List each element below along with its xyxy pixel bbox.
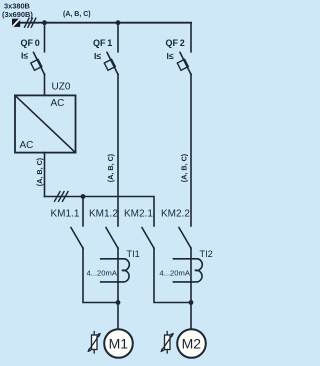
svg-text:KM2.1: KM2.1 bbox=[124, 209, 153, 220]
node: junction above M1 bbox=[116, 300, 121, 305]
label KM1.2 bbox=[89, 209, 118, 220]
thermistor sensor M1 bbox=[88, 332, 101, 354]
wire KM1.2 to motor M1 bbox=[117, 248, 119, 329]
svg-text:UZ0: UZ0 bbox=[52, 82, 71, 93]
label QF0 bbox=[21, 38, 40, 48]
svg-text:QF 2: QF 2 bbox=[166, 38, 185, 48]
label KM2.1 bbox=[124, 209, 153, 220]
label M1 bbox=[109, 336, 129, 352]
svg-text:4...20mA: 4...20mA bbox=[160, 269, 191, 278]
svg-text:KM1.1: KM1.1 bbox=[51, 209, 80, 220]
label 4...20mA TI1 bbox=[87, 269, 118, 278]
wire KM1.1 to junction bbox=[83, 248, 118, 303]
label AC input bbox=[51, 98, 65, 109]
current transducer TI2 bbox=[173, 259, 202, 282]
node: bus junction to QF0 bbox=[42, 20, 47, 25]
svg-text:M2: M2 bbox=[182, 336, 202, 352]
breaker QF2 bbox=[177, 23, 191, 75]
three-phase slashes on top bus bbox=[25, 18, 36, 27]
label AC output bbox=[20, 140, 34, 151]
svg-text:(A, B, C): (A, B, C) bbox=[106, 153, 115, 182]
wire QF2 column bbox=[190, 74, 192, 226]
wire KM2.1 to junction bbox=[154, 248, 191, 303]
motor M1 bbox=[104, 329, 133, 358]
label I<= QF0 bbox=[21, 51, 28, 61]
node: distribution junction to KM1.1 bbox=[81, 194, 86, 199]
label QF1 bbox=[93, 38, 112, 48]
svg-text:(A, B, C): (A, B, C) bbox=[35, 157, 44, 186]
svg-text:I≤: I≤ bbox=[94, 51, 101, 61]
svg-text:(A, B, C): (A, B, C) bbox=[63, 11, 91, 18]
svg-text:QF 1: QF 1 bbox=[93, 38, 112, 48]
contactor KM1.1 bbox=[71, 228, 83, 249]
contactor KM2.2 bbox=[179, 228, 191, 249]
svg-text:AC: AC bbox=[51, 98, 65, 109]
svg-text:QF 0: QF 0 bbox=[21, 38, 40, 48]
wire UZ0 output bbox=[44, 153, 46, 197]
breaker QF1 bbox=[104, 23, 118, 75]
wire KM1.1 drop bbox=[82, 197, 84, 226]
svg-text:TI2: TI2 bbox=[200, 249, 213, 259]
top bus wire (A,B,C) bbox=[20, 22, 191, 24]
label 4...20mA TI2 bbox=[160, 269, 191, 278]
contactor KM2.1 bbox=[142, 228, 154, 249]
wire KM2.2 to motor M2 bbox=[190, 248, 192, 329]
node: bus junction to QF1 bbox=[116, 20, 121, 25]
label TI2 bbox=[200, 249, 213, 259]
svg-text:I≤: I≤ bbox=[167, 51, 174, 61]
three-phase slashes on distribution line bbox=[55, 192, 69, 202]
current transducer TI1 bbox=[101, 259, 130, 282]
label KM1.1 bbox=[51, 209, 80, 220]
label TI1 bbox=[127, 249, 140, 259]
node: junction above M2 bbox=[189, 300, 194, 305]
label (3x690V) bbox=[2, 10, 33, 19]
thermistor sensor M2 bbox=[161, 332, 174, 354]
breaker QF0 bbox=[31, 23, 45, 96]
svg-text:I≤: I≤ bbox=[21, 51, 28, 61]
svg-text:M1: M1 bbox=[109, 336, 129, 352]
frequency converter UZ0 bbox=[15, 95, 76, 152]
svg-text:KM1.2: KM1.2 bbox=[89, 209, 118, 220]
svg-text:(A, B, C): (A, B, C) bbox=[180, 153, 189, 182]
label M2 bbox=[182, 336, 202, 352]
label UZ0 bbox=[52, 82, 71, 93]
label (A,B,C) QF2 column bbox=[180, 153, 189, 182]
svg-text:KM2.2: KM2.2 bbox=[161, 209, 190, 220]
label I<= QF1 bbox=[94, 51, 101, 61]
motor M2 bbox=[177, 329, 206, 358]
label KM2.2 bbox=[161, 209, 190, 220]
label (A,B,C) UZ0 output bbox=[35, 157, 44, 186]
label I<= QF2 bbox=[167, 51, 174, 61]
label (A, B, C) top bus bbox=[63, 11, 91, 18]
svg-text:TI1: TI1 bbox=[127, 249, 140, 259]
svg-text:4...20mA: 4...20mA bbox=[87, 269, 118, 278]
label 3x380V bbox=[4, 2, 30, 11]
label QF2 bbox=[166, 38, 185, 48]
wire converter distribution line bbox=[45, 197, 155, 226]
label (A,B,C) QF1 column bbox=[106, 153, 115, 182]
contactor KM1.2 bbox=[106, 228, 118, 249]
svg-text:AC: AC bbox=[20, 140, 34, 151]
wire QF1 column bbox=[117, 74, 119, 226]
supply source symbol bbox=[12, 19, 20, 27]
